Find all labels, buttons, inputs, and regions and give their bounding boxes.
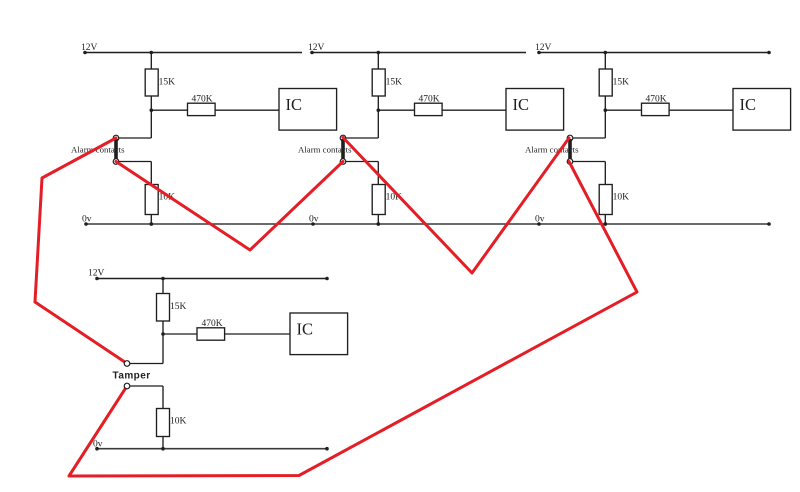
svg-text:470K: 470K bbox=[202, 319, 223, 329]
svg-text:15K: 15K bbox=[613, 78, 630, 88]
svg-text:IC: IC bbox=[513, 95, 530, 114]
svg-text:15K: 15K bbox=[159, 78, 176, 88]
svg-text:IC: IC bbox=[297, 320, 314, 339]
svg-text:0v: 0v bbox=[82, 215, 92, 225]
svg-text:12V: 12V bbox=[308, 43, 325, 53]
svg-text:IC: IC bbox=[286, 95, 303, 114]
svg-text:0v: 0v bbox=[93, 440, 103, 450]
svg-text:12V: 12V bbox=[81, 43, 98, 53]
svg-text:IC: IC bbox=[740, 95, 757, 114]
svg-text:0v: 0v bbox=[535, 215, 545, 225]
svg-text:0v: 0v bbox=[309, 215, 319, 225]
svg-text:15K: 15K bbox=[170, 302, 187, 312]
svg-text:470K: 470K bbox=[646, 94, 667, 104]
svg-text:10K: 10K bbox=[613, 193, 630, 203]
svg-text:12V: 12V bbox=[535, 43, 552, 53]
svg-text:15K: 15K bbox=[386, 78, 403, 88]
svg-text:Tamper: Tamper bbox=[113, 371, 151, 382]
svg-text:10K: 10K bbox=[170, 417, 187, 427]
svg-text:470K: 470K bbox=[192, 94, 213, 104]
svg-text:470K: 470K bbox=[419, 94, 440, 104]
